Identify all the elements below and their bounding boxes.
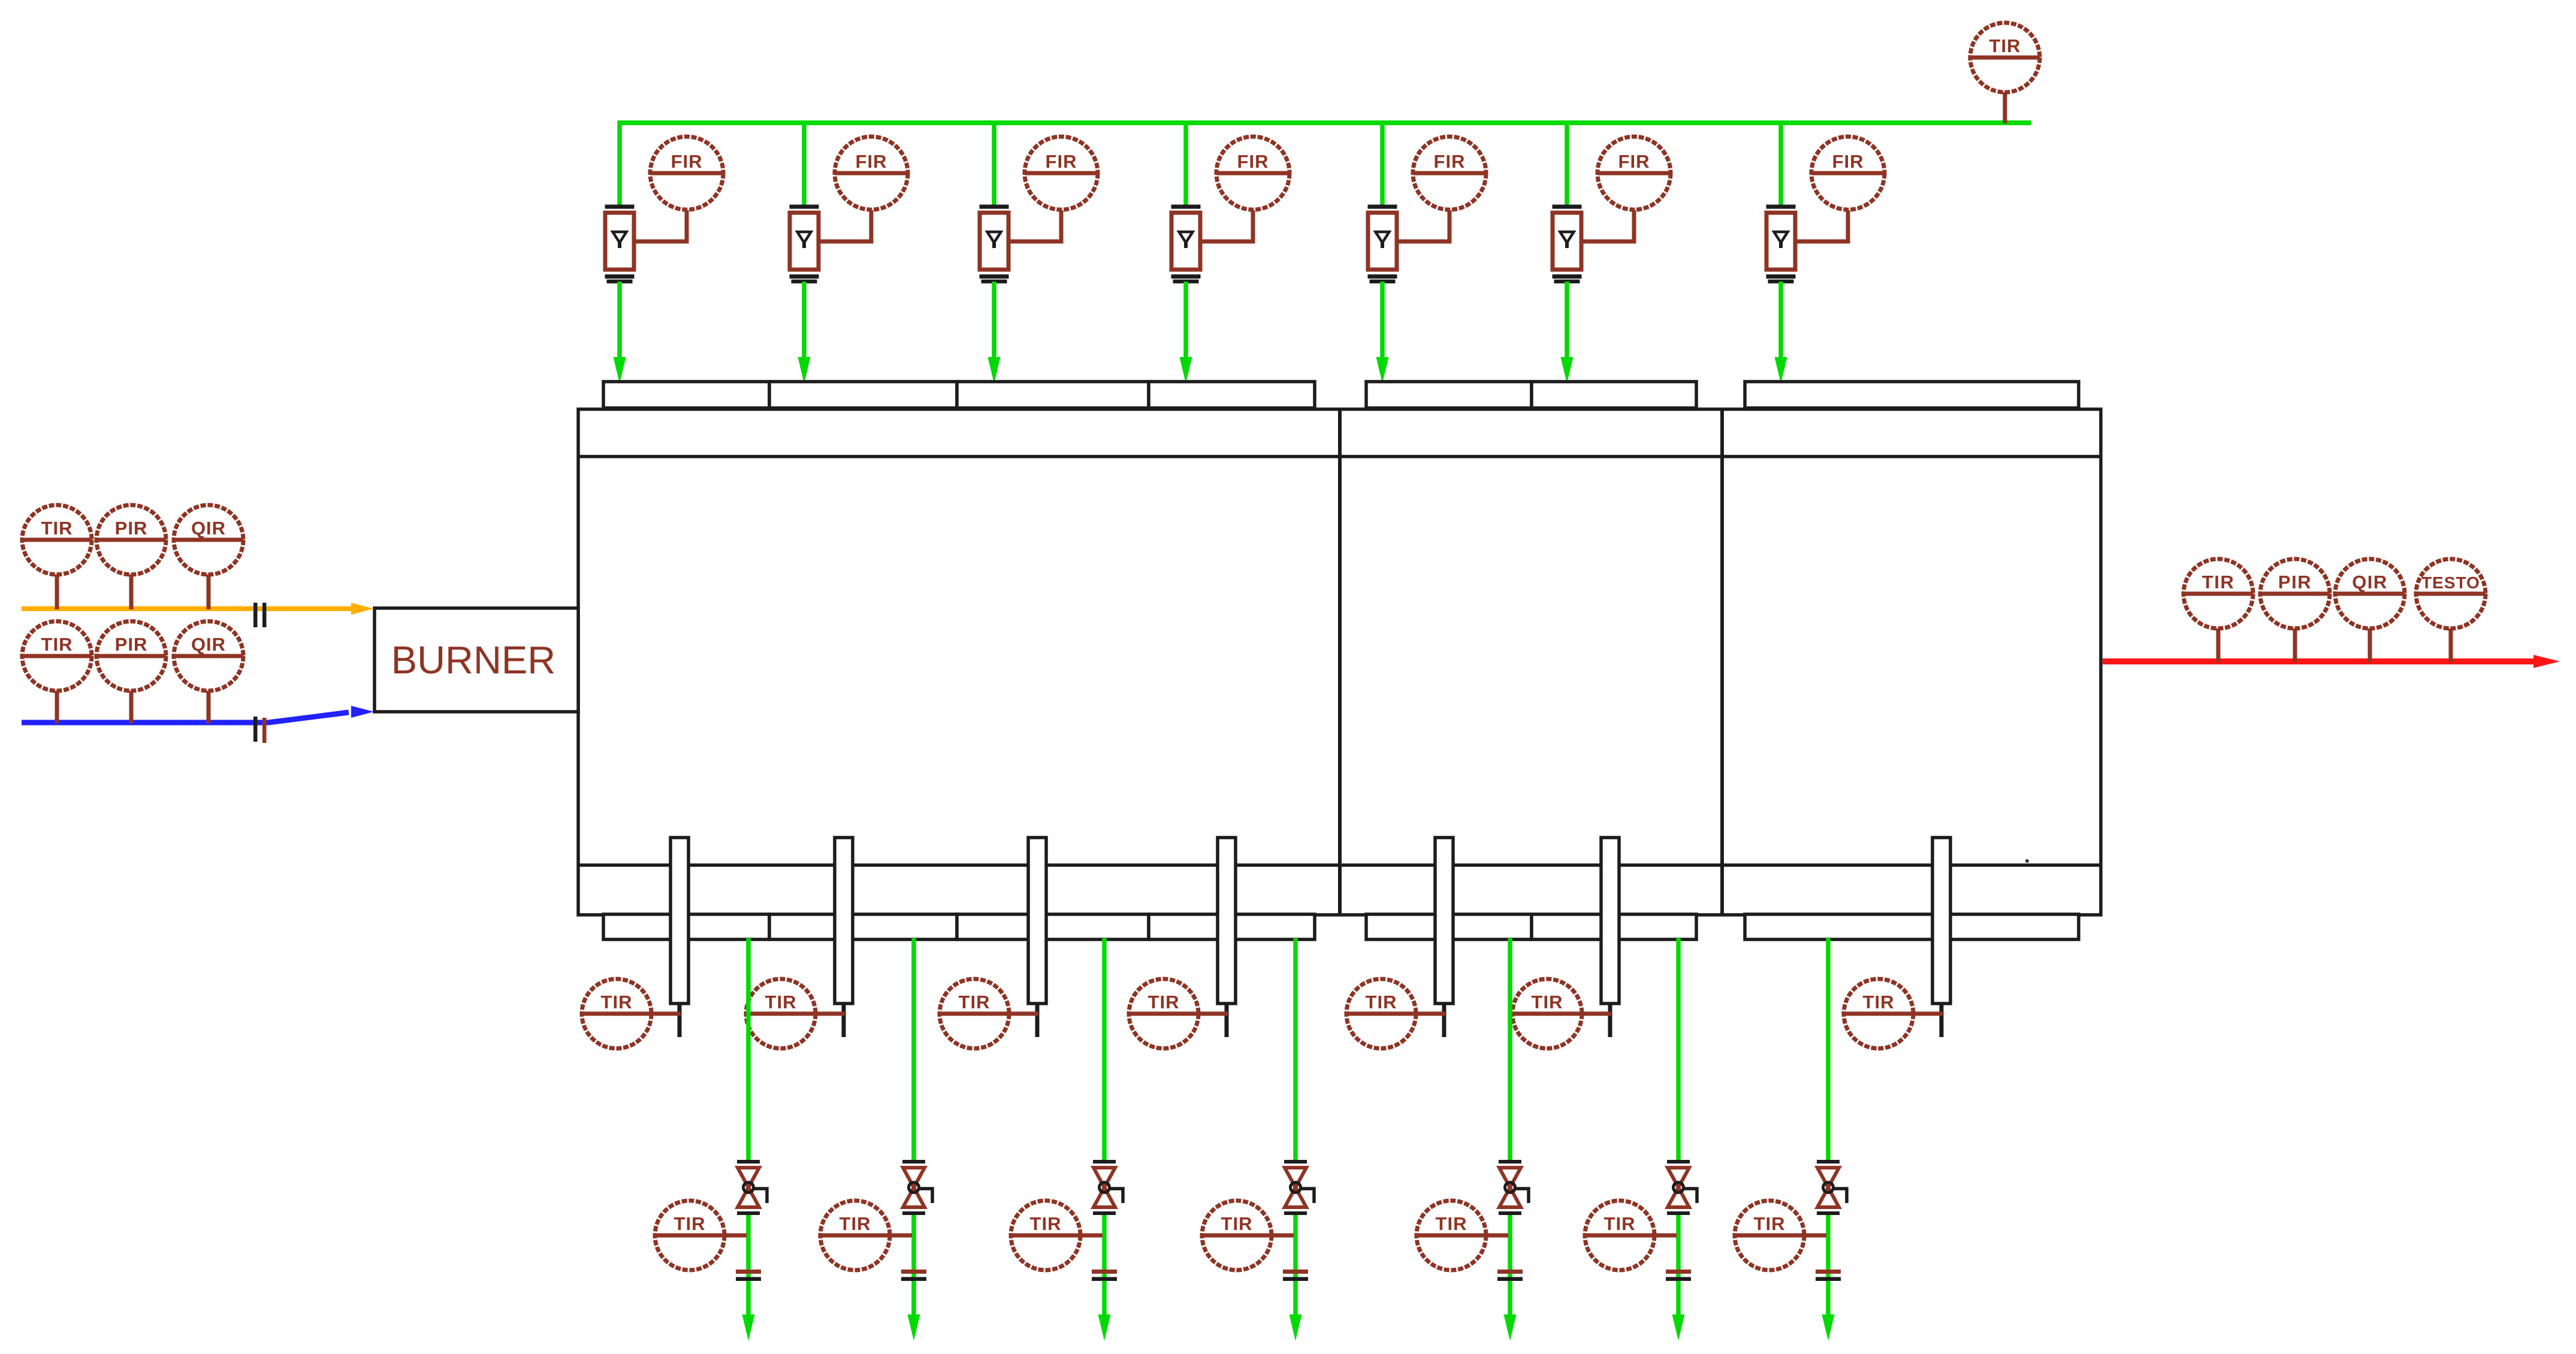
wire: green drain lower col5 <box>1508 1213 1512 1321</box>
instrument bubble TIR drain 2 <box>820 1201 890 1270</box>
instrument bubble FIR7 <box>1811 137 1885 210</box>
furnace inner roof line <box>578 455 2101 458</box>
svg-text:TIR: TIR <box>1754 1213 1786 1234</box>
svg-text:TIR: TIR <box>1221 1213 1253 1234</box>
wire: maroon signal FE1 to FIR1 <box>634 210 687 241</box>
floor plate 7 <box>1745 914 2079 939</box>
wire: green drop lower col4 <box>1183 282 1188 362</box>
instrument bubble PIR flue <box>2260 559 2330 628</box>
wire: TIR3 wall stem <box>974 1012 1038 1016</box>
roof plate 6 <box>1532 382 1696 408</box>
wire: green drain lower col4 <box>1293 1213 1298 1321</box>
arrowhead: green arrow col2 <box>798 357 811 383</box>
svg-text:TIR: TIR <box>2202 572 2234 593</box>
wire: stem of QIR air <box>207 688 211 723</box>
svg-text:TIR: TIR <box>839 1213 871 1234</box>
wire: green drain upper col3 <box>1102 938 1107 1162</box>
wire: green drain upper col4 <box>1293 938 1298 1162</box>
line break symbol col2 <box>901 1270 926 1274</box>
instrument bubble FIR2 <box>835 137 908 210</box>
control valve CV6 <box>1667 1160 1697 1215</box>
svg-text:QIR: QIR <box>191 634 226 655</box>
wire: green header (flue gas sampling header) <box>620 120 2031 125</box>
thermowell tail T6 <box>1608 1004 1612 1037</box>
wire: flue gas outlet (red) <box>2103 658 2538 664</box>
svg-text:TIR: TIR <box>1863 992 1895 1013</box>
arrowhead: drain arrow col4 <box>1289 1314 1302 1341</box>
wire: green drop lower col5 <box>1380 282 1385 362</box>
arrowhead: drain arrow col6 <box>1672 1314 1685 1341</box>
wire: TIR4 wall stem <box>1164 1012 1228 1016</box>
floor plate 3 <box>957 914 1149 939</box>
zone divider wall 2 <box>1720 409 1724 915</box>
thermowell tail T5 <box>1442 1004 1446 1037</box>
flow element (rotameter) FE7 <box>1766 205 1796 284</box>
instrument bubble TESTO flue <box>2416 559 2486 628</box>
instrument bubble TIR drain 3 <box>1011 1201 1080 1270</box>
control valve CV4 <box>1284 1160 1314 1215</box>
wire: stem of PIR air <box>129 688 134 723</box>
wire: TIR3 drain stem <box>1046 1234 1103 1238</box>
instrument bubble TIR drain 6 <box>1585 1201 1654 1270</box>
arrowhead: green arrow col1 <box>614 357 626 383</box>
wire: stem of QIR fuel <box>207 572 211 609</box>
instrument bubble QIR air <box>174 621 243 691</box>
flow element (rotameter) FE5 <box>1368 205 1397 284</box>
wire: TIR4 drain stem <box>1237 1234 1294 1238</box>
burner box <box>375 608 578 712</box>
roof plate 4 <box>1149 382 1315 408</box>
wire: TIR6 drain stem <box>1620 1234 1677 1238</box>
floor plate 6 <box>1532 914 1696 939</box>
svg-text:TIR: TIR <box>765 992 797 1013</box>
wire: stem of PIR flue <box>2293 626 2297 662</box>
instrument bubble TIR wall 1 <box>582 979 651 1048</box>
wire: maroon signal FE2 to FIR2 <box>819 210 871 241</box>
arrowhead: drain arrow col5 <box>1504 1314 1517 1341</box>
svg-text:TIR: TIR <box>41 518 73 539</box>
wire: green drain upper col5 <box>1508 938 1512 1162</box>
wire: stem of TIR flue <box>2216 626 2221 662</box>
wire: maroon signal FE7 to FIR7 <box>1795 210 1848 241</box>
svg-text:TIR: TIR <box>1989 35 2021 56</box>
svg-text:FIR: FIR <box>856 151 887 172</box>
svg-text:PIR: PIR <box>115 634 148 655</box>
flow element (rotameter) FE3 <box>980 205 1009 284</box>
wire: TIR1 drain stem <box>690 1234 747 1238</box>
control valve CV1 <box>737 1160 767 1215</box>
wire: stem of TIR fuel <box>55 572 59 609</box>
arrowhead: drain arrow col1 <box>742 1314 755 1341</box>
wire: stem of PIR fuel <box>129 572 134 609</box>
wire: green drop upper col6 <box>1565 120 1569 205</box>
svg-text:QIR: QIR <box>191 518 226 539</box>
roof plate 2 <box>769 382 957 408</box>
instrument bubble TIR wall 5 <box>1346 979 1416 1048</box>
svg-text:FIR: FIR <box>671 151 703 172</box>
instrument bubble TIR wall 4 <box>1129 979 1198 1048</box>
instrument bubble FIR6 <box>1597 137 1671 210</box>
svg-text:TIR: TIR <box>959 992 990 1013</box>
wire: green drop upper col1 <box>617 120 622 205</box>
wire: maroon signal FE6 to FIR6 <box>1581 210 1634 241</box>
svg-text:FIR: FIR <box>1618 151 1650 172</box>
speck <box>2025 859 2029 863</box>
wire: stem of QIR flue <box>2368 626 2372 662</box>
floor plate 5 <box>1366 914 1532 939</box>
wire: green drop lower col1 <box>617 282 622 362</box>
thermowell tail T7 <box>1940 1004 1944 1037</box>
svg-text:TIR: TIR <box>1532 992 1563 1013</box>
svg-text:BURNER: BURNER <box>391 638 555 682</box>
thermowell tube T7 <box>1932 838 1950 1004</box>
thermowell tube T4 <box>1218 838 1236 1004</box>
wire: green drain upper col1 <box>746 938 751 1162</box>
wire: TIR1 wall stem <box>617 1012 681 1016</box>
instrument bubble PIR fuel <box>96 505 166 575</box>
arrowhead: fuel arrow <box>351 603 374 615</box>
arrowhead: drain arrow col3 <box>1098 1314 1111 1341</box>
zone divider wall 1 <box>1338 409 1342 915</box>
instrument bubble TIR air <box>22 621 92 691</box>
line break symbol col3 <box>1092 1270 1117 1274</box>
wire: green drop lower col6 <box>1565 282 1569 362</box>
svg-text:FIR: FIR <box>1832 151 1864 172</box>
instrument bubble PIR air <box>96 621 166 691</box>
svg-text:TIR: TIR <box>1604 1213 1636 1234</box>
flow element (rotameter) FE1 <box>605 205 635 284</box>
wire: green drain lower col1 <box>746 1213 751 1321</box>
control valve CV5 <box>1499 1160 1529 1215</box>
wire: stem of top TIR <box>2003 92 2007 123</box>
svg-text:TIR: TIR <box>1436 1213 1467 1234</box>
thermowell tube T2 <box>835 838 853 1004</box>
thermowell tail T4 <box>1225 1004 1229 1037</box>
wire: stem of TIR air <box>55 688 59 723</box>
floor plate 2 <box>769 914 957 939</box>
control valve CV3 <box>1093 1160 1123 1215</box>
instrument bubble TIR wall 2 <box>746 979 816 1048</box>
svg-text:FIR: FIR <box>1046 151 1077 172</box>
floor plate 1 <box>603 914 769 939</box>
wire: TIR2 drain stem <box>855 1234 912 1238</box>
wire: green drain lower col6 <box>1676 1213 1681 1321</box>
arrowhead: drain arrow col2 <box>908 1314 920 1341</box>
instrument bubble TIR top header <box>1970 23 2040 92</box>
wire: maroon signal FE5 to FIR5 <box>1397 210 1449 241</box>
instrument bubble TIR flue <box>2184 559 2253 628</box>
instrument bubble FIR5 <box>1413 137 1486 210</box>
thermowell tube T6 <box>1601 838 1619 1004</box>
arrowhead: green arrow col4 <box>1180 357 1192 383</box>
arrowhead: flue gas arrow <box>2533 655 2560 668</box>
instrument bubble TIR drain 7 <box>1735 1201 1804 1270</box>
wire: green drain upper col2 <box>911 938 916 1162</box>
thermowell tube T1 <box>671 838 688 1004</box>
wire: green drain lower col2 <box>911 1213 916 1321</box>
wire: green drop upper col2 <box>802 120 807 205</box>
svg-text:TIR: TIR <box>1030 1213 1062 1234</box>
arrowhead: green arrow col7 <box>1775 357 1787 383</box>
arrowhead: green arrow col5 <box>1376 357 1389 383</box>
roof plate 1 <box>603 382 769 408</box>
svg-text:TIR: TIR <box>601 992 633 1013</box>
wire: TIR5 wall stem <box>1381 1012 1445 1016</box>
wire: green drop upper col5 <box>1380 120 1385 205</box>
line break symbol col7 <box>1816 1270 1841 1274</box>
thermowell tube T5 <box>1435 838 1453 1004</box>
svg-text:PIR: PIR <box>2278 572 2312 593</box>
wire: green drop upper col3 <box>992 120 996 205</box>
wire: green drop lower col7 <box>1778 282 1783 362</box>
svg-text:QIR: QIR <box>2352 572 2388 593</box>
svg-text:FIR: FIR <box>1237 151 1269 172</box>
arrowhead: green arrow col6 <box>1561 357 1574 383</box>
roof plate 3 <box>957 382 1149 408</box>
instrument bubble FIR1 <box>650 137 723 210</box>
wire: green drain upper col6 <box>1676 938 1681 1162</box>
svg-text:FIR: FIR <box>1434 151 1466 172</box>
control valve CV2 <box>902 1160 932 1215</box>
wire: green drain lower col7 <box>1826 1213 1831 1321</box>
floor plate 4 <box>1149 914 1315 939</box>
svg-text:TIR: TIR <box>1148 992 1180 1013</box>
wire: maroon signal FE3 to FIR3 <box>1008 210 1061 241</box>
thermowell tail T3 <box>1035 1004 1040 1037</box>
thermowell tail T1 <box>678 1004 682 1037</box>
arrowhead: green arrow col3 <box>988 357 1001 383</box>
wire: green drop upper col7 <box>1778 120 1783 205</box>
wire: maroon signal FE4 to FIR4 <box>1200 210 1253 241</box>
line break symbol on air line <box>253 717 258 742</box>
line break symbol col6 <box>1666 1270 1691 1274</box>
instrument bubble QIR fuel <box>174 505 243 575</box>
wire: TIR7 drain stem <box>1769 1234 1826 1238</box>
wire: green drain upper col7 <box>1826 938 1831 1162</box>
instrument bubble TIR drain 4 <box>1202 1201 1272 1270</box>
wire: TIR2 wall stem <box>781 1012 845 1016</box>
svg-text:TIR: TIR <box>674 1213 706 1234</box>
wire: green drop lower col3 <box>992 282 996 362</box>
svg-text:TIR: TIR <box>1366 992 1397 1013</box>
line break symbol col1 <box>736 1270 761 1274</box>
instrument bubble TIR wall 3 <box>940 979 1009 1048</box>
thermowell tail T2 <box>842 1004 846 1037</box>
wire: green drain lower col3 <box>1102 1213 1107 1321</box>
furnace inner floor line <box>578 863 2101 867</box>
svg-text:TESTO: TESTO <box>2421 573 2480 592</box>
furnace outer shell <box>578 409 2101 915</box>
roof plate 5 <box>1366 382 1532 408</box>
wire: stem of TESTO flue <box>2449 626 2453 662</box>
arrowhead: drain arrow col7 <box>1822 1314 1835 1341</box>
instrument bubble FIR3 <box>1025 137 1098 210</box>
instrument bubble TIR wall 7 <box>1844 979 1913 1048</box>
instrument bubble FIR4 <box>1216 137 1289 210</box>
thermowell tube T3 <box>1028 838 1046 1004</box>
wire: TIR7 wall stem <box>1879 1012 1943 1016</box>
control valve CV7 <box>1817 1160 1847 1215</box>
wire: TIR5 drain stem <box>1451 1234 1508 1238</box>
combustion air line (blue) <box>22 712 349 723</box>
wire: TIR6 wall stem <box>1547 1012 1611 1016</box>
flow element (rotameter) FE4 <box>1171 205 1201 284</box>
line break symbol on fuel line <box>253 603 258 627</box>
flow element (rotameter) FE2 <box>790 205 819 284</box>
arrowhead: air arrow <box>351 706 374 718</box>
instrument bubble TIR wall 6 <box>1512 979 1582 1048</box>
line break symbol col4 <box>1283 1270 1308 1274</box>
flow element (rotameter) FE6 <box>1553 205 1582 284</box>
line break symbol col5 <box>1497 1270 1523 1274</box>
wire: green drop lower col2 <box>802 282 807 362</box>
wire: fuel line (orange) <box>22 606 352 611</box>
roof plate 7 <box>1745 382 2079 408</box>
wire: green drop upper col4 <box>1183 120 1188 205</box>
svg-text:TIR: TIR <box>41 634 73 655</box>
instrument bubble TIR fuel <box>22 505 92 575</box>
instrument bubble TIR drain 1 <box>655 1201 724 1270</box>
instrument bubble TIR drain 5 <box>1417 1201 1486 1270</box>
instrument bubble QIR flue <box>2335 559 2405 628</box>
svg-text:PIR: PIR <box>115 518 148 539</box>
